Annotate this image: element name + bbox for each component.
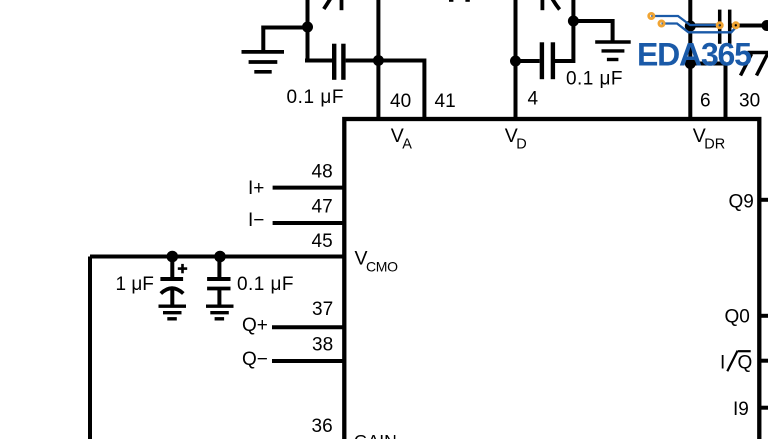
pin 38 wire Q- [272,359,344,363]
capacitor C1 0.1uF (plates) [334,44,343,80]
svg-text:D: D [516,136,526,152]
pin stub Q9 [761,198,768,202]
capacitor C4 plus sign [178,264,187,273]
svg-text:GAIN: GAIN [354,431,397,439]
wire: horizontal from node to pin 41 drop [378,59,424,63]
overline of Qbar [738,350,751,352]
capacitor C5 bottom plate [207,287,230,291]
fragment of component above (cut off, near x=540, "K"-like) [542,0,559,10]
wire: node right then down to ground G2 [573,21,612,41]
node junction dot at (515.5,61) [510,56,521,67]
svg-text:DR: DR [704,136,725,152]
IC box outline U1 [344,119,759,439]
EDA365 watermark logo: pad ring 2 [659,21,664,26]
svg-text:I9: I9 [733,399,749,420]
capacitor C2 0.1uF (plates) [542,42,553,79]
svg-text:37: 37 [312,299,333,320]
node junction dot at (573.4,21) [568,16,579,27]
capacitor C5 bottom lead [217,289,221,305]
svg-text:48: 48 [312,162,333,183]
wire: vertical from top edge to node (573.4,21) [571,0,575,21]
EDA365 watermark logo: pad ring 1 [649,13,654,18]
wire: horizontal into capacitor C1 left plate [305,59,332,63]
svg-text:Q−: Q− [242,349,268,370]
node junction dot at (307,26) [302,22,313,33]
fragment strokes of component above (cut off, x=449..470) [451,0,467,2]
EDA365 watermark logo: pad ring 3 [717,23,722,28]
wire: node to capacitor C3 left plate [690,24,718,28]
wire: vertical from top to node at (307,26) [306,0,310,27]
svg-text:I−: I− [248,210,264,231]
svg-text:Q+: Q+ [242,315,268,336]
node junction dot at (171.5,256.5) [167,251,179,263]
wire: C3 right plate to right edge [731,24,768,28]
capacitor C4 curved bottom plate [161,288,184,293]
node junction dot at (690.3,26) [685,21,696,32]
ground G1 [242,52,285,72]
EDA365 watermark logo: PCB trace 2 (blue) [662,24,736,33]
svg-text:Q9: Q9 [729,192,754,213]
node junction dot at right edge (766.9,25.5) [761,20,768,31]
capacitor C4 1uF polarized: top lead [170,257,174,278]
wire: long vertical pin 6 lead from top into box [688,0,692,119]
ground G2 [595,42,631,60]
pin 45 wire VCMO net [90,255,344,259]
svg-text:I: I [720,352,725,373]
EDA365 watermark logo: PCB trace 1 (blue) [651,16,719,25]
svg-text:6: 6 [700,91,711,112]
wire: long vertical pin 40 lead from top into box [376,0,380,119]
EDA365 watermark logo: pad ring 4 [733,23,738,28]
svg-text:0.1 μF: 0.1 μF [237,274,294,295]
svg-text:EDA365: EDA365 [637,37,751,73]
pin stub Q0 [761,314,768,318]
pin 48 wire I+ [273,186,344,190]
ground G4 [159,306,187,319]
pin stub I/Qbar [761,359,768,363]
wire: vertical at x=90 down to bottom edge [88,257,92,439]
svg-text:0.1 μF: 0.1 μF [287,87,345,108]
pin 37 wire Q+ [272,325,344,329]
node junction dot at (690.3,63.5) [685,58,696,69]
svg-text:1 μF: 1 μF [116,274,154,295]
svg-text:I+: I+ [248,178,264,199]
pin stub I9 [761,406,768,410]
wire: node to capacitor C2 left plate [516,59,540,63]
svg-text:0.1 μF: 0.1 μF [566,69,623,90]
capacitor C3 (plates) [720,10,730,44]
svg-text:Q: Q [738,352,753,373]
capacitor C5 0.1uF: top lead [217,257,221,278]
fragment of component above (cut off at top, near x=330) [324,0,342,10]
svg-text:45: 45 [312,231,333,252]
wire: vertical drop to ground G1 [261,26,265,51]
svg-text:4: 4 [528,89,539,110]
svg-text:Q0: Q0 [725,306,750,327]
wire: vertical pin 30 lead into box [724,64,728,120]
svg-text:30: 30 [739,91,760,112]
capacitor C4 top plate [160,277,183,281]
node junction dot at (219.8,256.5) [214,251,226,263]
node junction dot at (378.4,60.5) [373,55,384,66]
wire: long vertical pin 4 lead from top into box [514,0,518,119]
svg-text:47: 47 [312,197,333,218]
wire: node (690.3,63.5) right to pin 30 drop (hidden partly by logo) [690,62,725,66]
pin 47 wire I- [273,221,344,225]
svg-text:40: 40 [390,91,411,112]
svg-text:A: A [402,136,412,152]
wire: vertical from node (307,26) down to cap C1 row [306,27,310,61]
capacitor C4 bottom lead [170,290,174,305]
wire: vertical pin 41 lead into box [422,59,426,120]
wire: horizontal from ground corner to node (307,26) [261,26,307,30]
svg-text:36: 36 [312,416,333,437]
chassis ground fragment at right edge [741,53,768,76]
label I/Qbar: slash [727,351,737,372]
capacitor C5 top plate [207,277,230,281]
ground G5 [206,306,234,319]
svg-text:41: 41 [435,91,456,112]
svg-text:CMO: CMO [366,259,398,275]
svg-text:38: 38 [312,335,333,356]
wire: C2 right plate right then up to node (573.4,21) [555,21,573,61]
wire: C1 right plate to node (378.4,60.5) [346,59,379,63]
